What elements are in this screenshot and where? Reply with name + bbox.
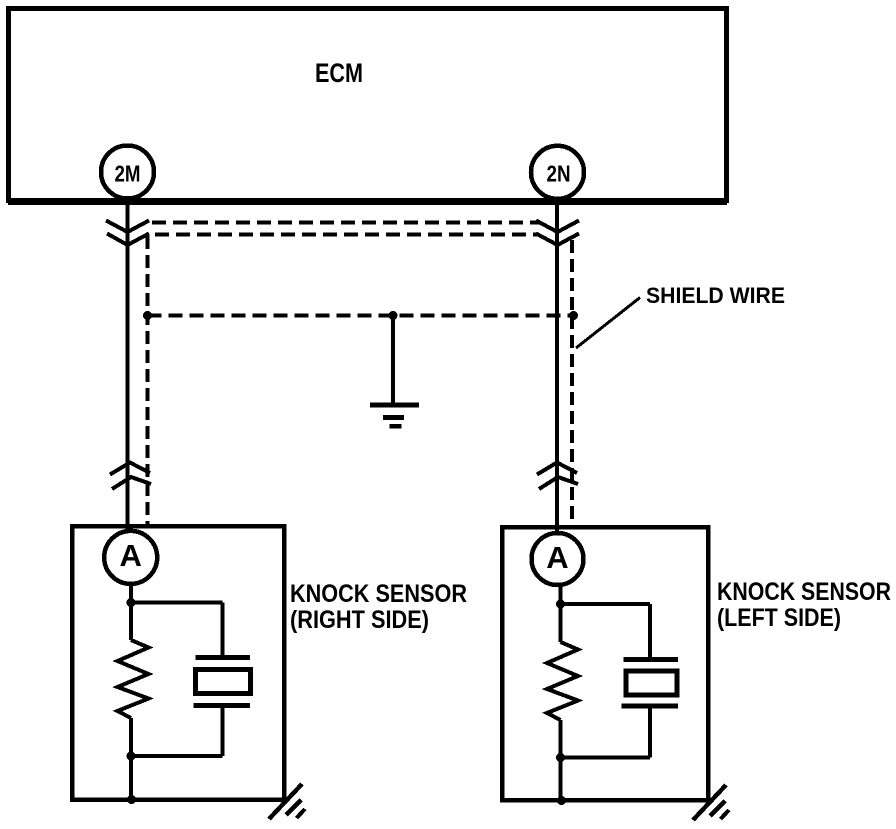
node at resistor bottom right sensor [127, 752, 136, 761]
connector chevrons above knock sensor right [110, 463, 151, 490]
shield wire label leader [576, 298, 640, 349]
junction node right [569, 311, 578, 320]
ECM box [8, 9, 727, 206]
svg-text:A: A [120, 538, 142, 573]
shield wire upper dashed run [152, 223, 540, 235]
piezo element right sensor [194, 658, 251, 706]
connector chevrons above knock sensor left [537, 463, 578, 490]
knock sensor right box [72, 526, 284, 800]
shield wire left vertical dashed [146, 236, 150, 525]
node at resistor bottom left sensor [556, 753, 565, 762]
svg-text:KNOCK SENSOR: KNOCK SENSOR [290, 580, 467, 608]
svg-text:A: A [546, 540, 568, 575]
node at box bottom left sensor [557, 796, 566, 805]
connector chevrons at 2M [106, 221, 149, 246]
svg-text:KNOCK SENSOR: KNOCK SENSOR [717, 578, 891, 606]
svg-text:(RIGHT SIDE): (RIGHT SIDE) [290, 606, 429, 634]
knock sensor right pin A [104, 531, 157, 584]
shield wire right vertical dashed [570, 240, 574, 527]
svg-text:SHIELD WIRE: SHIELD WIRE [646, 283, 785, 308]
knock sensor left box [502, 527, 708, 800]
resistor right sensor [118, 640, 149, 718]
svg-text:2M: 2M [115, 161, 141, 187]
knock sensor left pin A [532, 533, 584, 585]
junction node left [143, 311, 152, 320]
node at box bottom right sensor [127, 795, 136, 804]
shield wire mid horizontal dashed [148, 314, 574, 318]
wire 2N to knock sensor left [555, 199, 559, 535]
svg-text:2N: 2N [547, 161, 571, 187]
pin 2N [531, 146, 584, 199]
svg-text:(LEFT SIDE): (LEFT SIDE) [717, 604, 841, 632]
piezo element left sensor [622, 660, 679, 707]
knock sensor left wiring [561, 585, 651, 801]
ground G1 [370, 316, 419, 427]
chassis ground left sensor [693, 785, 729, 820]
chassis ground right sensor [269, 784, 305, 819]
junction node ground tap [389, 311, 398, 320]
node at resistor top right sensor [127, 598, 136, 607]
knock sensor right label [290, 580, 467, 634]
wire 2M to knock sensor right [126, 199, 130, 533]
svg-text:ECM: ECM [315, 58, 363, 88]
knock sensor left label [717, 578, 891, 632]
pin 2M [101, 146, 154, 199]
connector chevrons at 2N [536, 221, 579, 246]
node at resistor top left sensor [556, 600, 565, 609]
knock sensor right wiring [131, 584, 223, 800]
resistor left sensor [547, 642, 578, 720]
